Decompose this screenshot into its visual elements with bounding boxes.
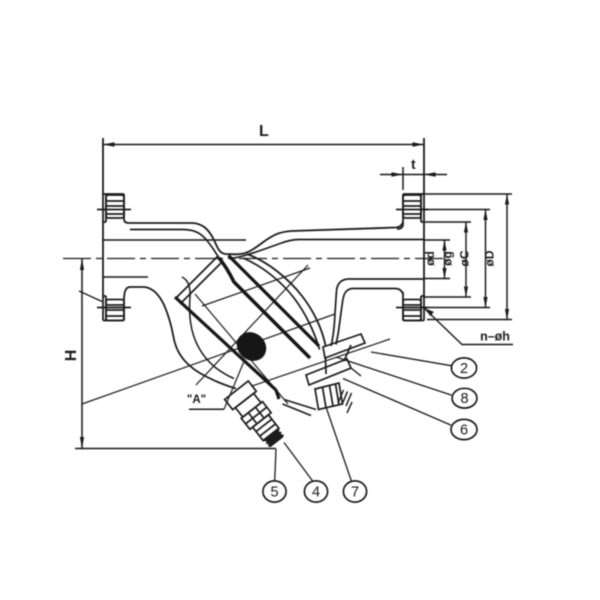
- body bulge left inner arc: [182, 277, 234, 379]
- body bulge left arc: [145, 287, 236, 389]
- dimension L: [103, 144, 424, 146]
- left flange top bolt: [97, 195, 131, 218]
- dimension oC: [485, 210, 487, 308]
- strainer cap upper-left: [175, 256, 223, 304]
- stray line near left flange: [79, 291, 102, 302]
- callout 4: [284, 443, 313, 482]
- drain plug band2: [241, 402, 271, 430]
- leg lower contour to nut: [283, 400, 317, 416]
- dimension og: [465, 222, 467, 297]
- svg-text:øg: øg: [441, 251, 455, 266]
- pipe bore lines: [103, 240, 246, 277]
- dimension extension lines right: [421, 194, 512, 320]
- right pipe outer bottom + J curve: [336, 289, 403, 345]
- svg-text:øC: øC: [458, 250, 472, 266]
- mesh blob: [231, 326, 272, 367]
- svg-text:t: t: [411, 156, 416, 172]
- svg-text:n–øh: n–øh: [480, 330, 510, 344]
- right flange top bolt: [396, 195, 428, 218]
- strainer bold wall B1: [229, 256, 320, 347]
- strainer bold wall C: [175, 297, 276, 390]
- svg-text:L: L: [259, 123, 269, 140]
- right flange bottom bolt: [396, 300, 428, 321]
- body bulge right inner arc: [243, 258, 320, 350]
- callout 5: [275, 449, 276, 481]
- dimension od: [444, 240, 446, 279]
- body top S-curves outer: [191, 222, 403, 254]
- svg-text:5: 5: [270, 484, 278, 500]
- svg-text:4: 4: [312, 484, 320, 500]
- drain boss: [225, 381, 257, 410]
- thin diagonal F2: [202, 268, 310, 306]
- callout 2: [371, 352, 451, 366]
- leg lattice line D: [195, 294, 288, 404]
- cover nut part6: [315, 383, 343, 410]
- n-oh label: [424, 308, 513, 345]
- svg-text:"A": "A": [187, 394, 206, 406]
- svg-text:H: H: [63, 350, 80, 362]
- centerline pipe axis: [63, 258, 443, 260]
- left flange: [103, 138, 191, 321]
- callout 8: [336, 357, 452, 395]
- callout 7: [326, 407, 351, 481]
- thin diagonal E2 cover axis: [252, 339, 390, 386]
- cover band 1: [323, 334, 365, 374]
- cover bolt thread hatch part7: [338, 390, 352, 413]
- right pipe inner bottom + J curve: [331, 279, 424, 346]
- thin diagonal E1: [82, 314, 335, 404]
- svg-text:øD: øD: [483, 250, 497, 266]
- cover band 2: [306, 359, 351, 385]
- dimension H: [75, 259, 276, 449]
- svg-text:2: 2: [460, 361, 468, 377]
- drain plug head band1: [235, 393, 261, 417]
- label A leader: [224, 359, 245, 409]
- svg-text:ød: ød: [423, 251, 437, 266]
- body inner S right: [231, 240, 424, 259]
- drain plug nut part4: [253, 415, 279, 441]
- drain plug tip part5: [264, 429, 283, 446]
- callout 6: [343, 379, 451, 426]
- dimension oD: [506, 194, 508, 320]
- cover side edge tick: [351, 368, 361, 376]
- body inner S left: [130, 230, 219, 259]
- svg-text:7: 7: [351, 484, 359, 500]
- dimension t: [380, 167, 447, 190]
- svg-text:6: 6: [460, 422, 468, 438]
- svg-text:8: 8: [460, 391, 468, 407]
- right flange: [397, 138, 424, 321]
- thin diagonal F1: [196, 265, 308, 385]
- bold step at boss: [276, 390, 279, 399]
- left flange bottom bolt: [97, 300, 131, 321]
- strainer bold wall B2: [219, 258, 310, 358]
- body bulge right outer arc: [247, 254, 326, 346]
